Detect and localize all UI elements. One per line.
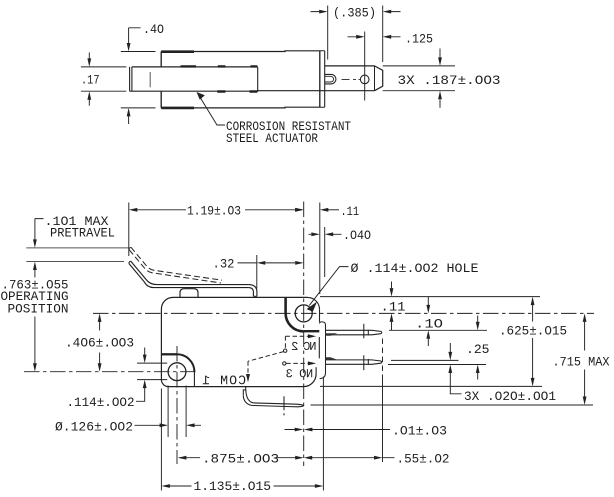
lever solid (operating position) — [129, 261, 257, 296]
dim .187 arrowheads — [438, 57, 442, 66]
lever tip cap — [129, 261, 131, 264]
button bump — [180, 289, 198, 298]
body left edge — [160, 309, 162, 380]
svg-text:.4O: .4O — [143, 23, 164, 37]
dim .01 line — [285, 429, 391, 431]
body bottom-right corner — [304, 374, 317, 387]
ext line terminal tips dashed part — [382, 339, 384, 376]
svg-text:.4O6±.OO3: .4O6±.OO3 — [65, 337, 134, 351]
terminal strip outline — [320, 322, 326, 379]
terminal bottom ext line (.715) — [311, 404, 594, 406]
body top-left corner — [161, 297, 173, 309]
dim 1.135 line — [168, 485, 316, 487]
svg-text:.625±.O15: .625±.O15 — [499, 325, 567, 339]
COM contact arrowhead — [246, 374, 250, 382]
dim .625 arrowheads — [531, 297, 535, 306]
svg-text:Ø .114±.OO2 HOLE: Ø .114±.OO2 HOLE — [351, 262, 479, 276]
hinge corner thick horizontal — [304, 330, 320, 332]
mounting boss right edge — [193, 372, 195, 387]
actuator bar bottom edge and parting line — [130, 90, 375, 93]
dim ø.126 leader and tails — [135, 424, 202, 426]
dim .625 line lower — [532, 338, 534, 378]
dim .715 arrowheads — [583, 313, 587, 322]
dim .17 bottom ext line — [81, 90, 126, 92]
NO terminal long tick — [363, 355, 365, 370]
NO terminal short tick — [367, 359, 369, 365]
dim .406 arrowheads — [98, 313, 102, 322]
dim .40 bottom arrow tail — [128, 116, 130, 125]
centerlines — [24, 202, 594, 467]
pivot dot upper — [284, 349, 287, 352]
dim ø.126 left ext line — [167, 386, 169, 438]
ext line terminal tips solid part — [382, 375, 384, 462]
body bottom edge — [168, 386, 303, 388]
svg-text:.875±.OO3: .875±.OO3 — [202, 453, 279, 467]
body right edge middle segment — [318, 337, 320, 358]
svg-text:.O4O: .O4O — [343, 229, 371, 243]
dim .101 bracket — [35, 219, 44, 241]
housing left edge lower segment — [160, 91, 162, 108]
dim ø.126 right ext line — [185, 386, 187, 438]
text NO 3 (mirrored) — [286, 369, 312, 377]
hinge horizontal centerline — [93, 312, 594, 314]
dim .17 arrow tails — [88, 53, 90, 106]
NC terminal long tick — [363, 324, 365, 339]
dim .625 line upper — [532, 305, 534, 322]
hinge corner thick arc — [286, 313, 304, 331]
svg-text:.1O: .1O — [415, 318, 443, 332]
terminal NO top ext line — [391, 359, 459, 361]
mounting boss arc — [177, 354, 194, 371]
dim .10 arrowheads — [426, 305, 430, 314]
dim .11h tail and connector — [325, 209, 340, 211]
plunger tip chamfers and end face — [375, 66, 383, 91]
dim .25 arrowheads — [476, 322, 480, 331]
dim .01 arrowheads — [295, 428, 304, 432]
svg-text:.25: .25 — [466, 343, 490, 357]
hidden-edge thick dashes on bar bottom edge — [217, 90, 257, 92]
bottom view dimension texts — [1, 205, 610, 495]
svg-text:(.385): (.385) — [333, 7, 376, 21]
lever end cap — [253, 295, 257, 297]
dim .40 bottom ext line — [121, 107, 156, 109]
step top connector — [320, 51, 325, 107]
actuator bar left end double line — [130, 67, 132, 91]
lever end curl inner — [249, 288, 254, 297]
body right ext line — [319, 203, 321, 295]
NO contact dashed horizontal — [286, 362, 308, 364]
dim .020 arrow tails and elbow — [450, 343, 461, 394]
actuator bar right end — [257, 67, 259, 91]
dim .32 ext line — [256, 255, 258, 289]
dim .187 bottom ext line — [383, 90, 455, 92]
plunger hole — [360, 75, 369, 84]
NC contact dashed horizontal — [285, 335, 308, 337]
dim ø.126 arrowheads — [160, 423, 169, 427]
dim .715 line lower — [584, 370, 586, 397]
NC contact arrowhead — [308, 334, 316, 338]
dim .17 top ext line — [81, 66, 126, 68]
dim .763 lower line — [34, 317, 36, 366]
COM bent terminal outer line — [243, 396, 303, 407]
dim .406 upper tail — [99, 320, 101, 331]
free lever tip cap — [129, 247, 131, 250]
hole center vertical ext line — [364, 32, 366, 101]
svg-text:Ø.126±.OO2: Ø.126±.OO2 — [55, 421, 133, 435]
body right edge lower segment — [315, 367, 317, 374]
corrosion leader arrowhead — [197, 92, 205, 100]
NC terminal short tick — [367, 330, 369, 336]
top view dimension texts — [81, 7, 501, 147]
housing right face — [319, 51, 321, 107]
text COM 1 (mirrored) — [203, 376, 246, 385]
dim .875 arrowheads — [178, 456, 187, 460]
svg-text:.125: .125 — [405, 33, 433, 47]
NC contact dashed vertical — [284, 336, 286, 348]
dim .11v arrowheads — [390, 288, 394, 297]
dim .40 bracket and leader — [129, 28, 141, 44]
svg-text:STEEL ACTUATOR: STEEL ACTUATOR — [226, 132, 318, 146]
dim .406 lower tail — [99, 353, 101, 366]
dim (.385)/.125 right ext line — [382, 6, 384, 63]
dim .114 arrowheads — [143, 355, 147, 364]
COM terminal tick — [283, 396, 285, 415]
lever bottom line — [129, 264, 249, 288]
mounting hole horizontal centerline — [24, 371, 197, 373]
svg-text:.11: .11 — [341, 205, 360, 219]
housing bottom edge thick segment — [161, 107, 194, 110]
dim (.385) arrow tails — [311, 11, 401, 13]
svg-text:.715 MAX: .715 MAX — [553, 356, 610, 370]
svg-text:3X .187±.OO3: 3X .187±.OO3 — [398, 74, 501, 88]
free lever bottom dashed line — [129, 250, 221, 283]
dim .114 arrow tails and elbow — [136, 348, 145, 402]
dim 1.19 dimension line right part — [245, 209, 299, 211]
plunger hole centerline dashes — [342, 78, 361, 80]
COM bent terminal inner line — [246, 390, 304, 406]
dim .125 arrowheads — [356, 35, 365, 39]
housing bottom edge — [161, 106, 320, 109]
pivot dot lower — [283, 362, 286, 365]
plunger chamfer line — [374, 66, 376, 91]
plunger slot outer — [325, 74, 336, 84]
free lever top dashed line — [131, 247, 222, 280]
NC terminal root wedge — [326, 333, 338, 335]
dim .11h arrowheads — [295, 208, 304, 212]
body top edge — [173, 296, 308, 298]
NC terminal blade — [326, 330, 382, 335]
ø.114 hole leader — [309, 267, 348, 306]
operating position line — [26, 261, 124, 263]
mounting hole — [168, 363, 186, 381]
text NC 2 (mirrored) — [292, 342, 316, 350]
dim .715 line upper — [584, 322, 586, 351]
body top-right corner — [308, 297, 320, 309]
svg-text:.17: .17 — [81, 74, 100, 88]
hidden-edge thick dashes on bar top edge — [181, 65, 258, 67]
housing top edge — [161, 50, 320, 53]
lever top line — [131, 261, 249, 285]
dim 1.135 arrowheads — [161, 484, 170, 488]
dim .32 dimension line — [238, 262, 296, 264]
housing top edge thick segment — [161, 50, 194, 53]
housing cover step face — [324, 51, 326, 107]
plunger top edge — [325, 65, 375, 67]
actuator bar bend tick — [149, 72, 151, 87]
dim .55 arrowheads — [304, 456, 313, 460]
svg-text:1.135±.O15: 1.135±.O15 — [194, 480, 272, 494]
body bottom ext line — [320, 385, 542, 387]
plunger slot inner — [325, 76, 334, 82]
diagonal dashed link — [248, 352, 284, 362]
hinge hole — [295, 305, 312, 322]
dim .114 lower ext line — [137, 379, 167, 381]
internal mechanism hidden lines — [248, 336, 308, 376]
dim .040 tails — [309, 233, 342, 235]
svg-text:.11: .11 — [381, 301, 406, 315]
dim .040 arrowheads — [311, 232, 320, 236]
lever free position (phantom) — [129, 247, 222, 283]
svg-text:.32: .32 — [213, 258, 235, 272]
corrosion leader line — [199, 95, 226, 125]
dim .32 arrowheads — [257, 261, 266, 265]
svg-text:1.19±.O3: 1.19±.O3 — [187, 205, 241, 219]
mounting boss top line (thick) — [161, 353, 177, 355]
NO contact arrowhead — [308, 361, 316, 365]
mounting hole vertical centerline — [176, 346, 178, 464]
svg-text:.55±.O2: .55±.O2 — [397, 453, 450, 467]
svg-text:3X .O2O±.OO1: 3X .O2O±.OO1 — [464, 390, 556, 404]
ø.114 leader arrowhead — [307, 302, 318, 312]
free position line — [26, 247, 130, 249]
COM dashed vertical — [247, 361, 249, 376]
svg-text:.114±.OO2: .114±.OO2 — [67, 396, 135, 410]
svg-text:PRETRAVEL: PRETRAVEL — [50, 227, 115, 241]
dim .40 arrowheads — [127, 43, 131, 52]
hinge corner thick vertical — [284, 297, 287, 313]
dim .25 arrow tails — [477, 316, 479, 380]
dim .875/.55 chain line — [179, 457, 395, 459]
terminals — [243, 324, 382, 416]
body top ext line — [320, 296, 540, 298]
dim .114 upper ext line — [137, 362, 167, 364]
dim (.385) left ext line — [327, 6, 329, 60]
dim .020 arrowheads — [448, 352, 452, 361]
dim 1.19 left ext line (lever tip) — [128, 203, 130, 257]
housing left edge upper segment — [160, 52, 162, 67]
dim .17 arrowheads — [87, 58, 91, 67]
dim 1.19 arrowheads — [129, 208, 138, 212]
NO terminal root wedge — [326, 357, 338, 360]
dim 1.19/.11 dimension line left part — [133, 209, 186, 211]
dim .10 arrow tails — [427, 297, 429, 347]
dim .125 arrow tails — [348, 36, 401, 38]
terminal NO bottom ext line — [388, 364, 486, 366]
dim .187 top ext line — [383, 65, 455, 67]
dim .11v arrow tails — [391, 282, 393, 331]
body bottom-left corner — [161, 380, 168, 387]
dim .101 arrowhead — [33, 239, 37, 248]
NO terminal blade — [326, 360, 382, 364]
hinge vertical centerline — [303, 202, 305, 467]
terminal NC top ext line — [389, 329, 487, 331]
lever end curl outer — [249, 285, 257, 297]
svg-text:.O1±.O3: .O1±.O3 — [392, 425, 447, 439]
body right edge upper segment — [319, 309, 321, 322]
dim .763 arrowheads — [33, 262, 37, 271]
actuator bar top edge — [132, 66, 258, 68]
dim (.385) arrowheads — [319, 10, 328, 14]
dim .763 upper tail — [34, 269, 36, 278]
free/operating position reference lines — [26, 248, 130, 262]
step right ext line — [324, 227, 326, 277]
ext line 1.135 left (body left) — [160, 389, 162, 491]
ext line 1.135 right (step) — [322, 377, 324, 491]
COM bent terminal left step — [243, 387, 245, 396]
dim .187 arrow tails — [439, 49, 441, 108]
svg-text:POSITION: POSITION — [8, 303, 69, 317]
dim .40 top ext line — [121, 51, 156, 53]
